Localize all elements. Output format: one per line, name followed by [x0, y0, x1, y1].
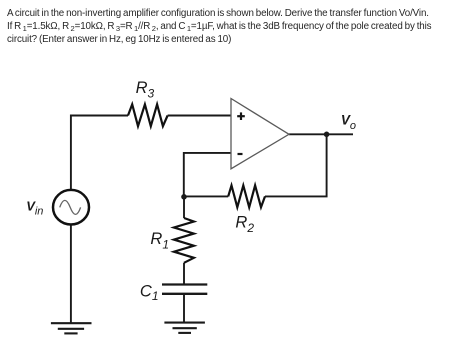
svg-text:Vo: Vo	[341, 113, 356, 132]
svg-text:R3: R3	[136, 79, 155, 101]
svg-text:R1: R1	[150, 230, 169, 251]
svg-text:C1: C1	[140, 283, 159, 303]
svg-text:R2: R2	[235, 213, 254, 235]
svg-text:Vin: Vin	[26, 198, 43, 217]
